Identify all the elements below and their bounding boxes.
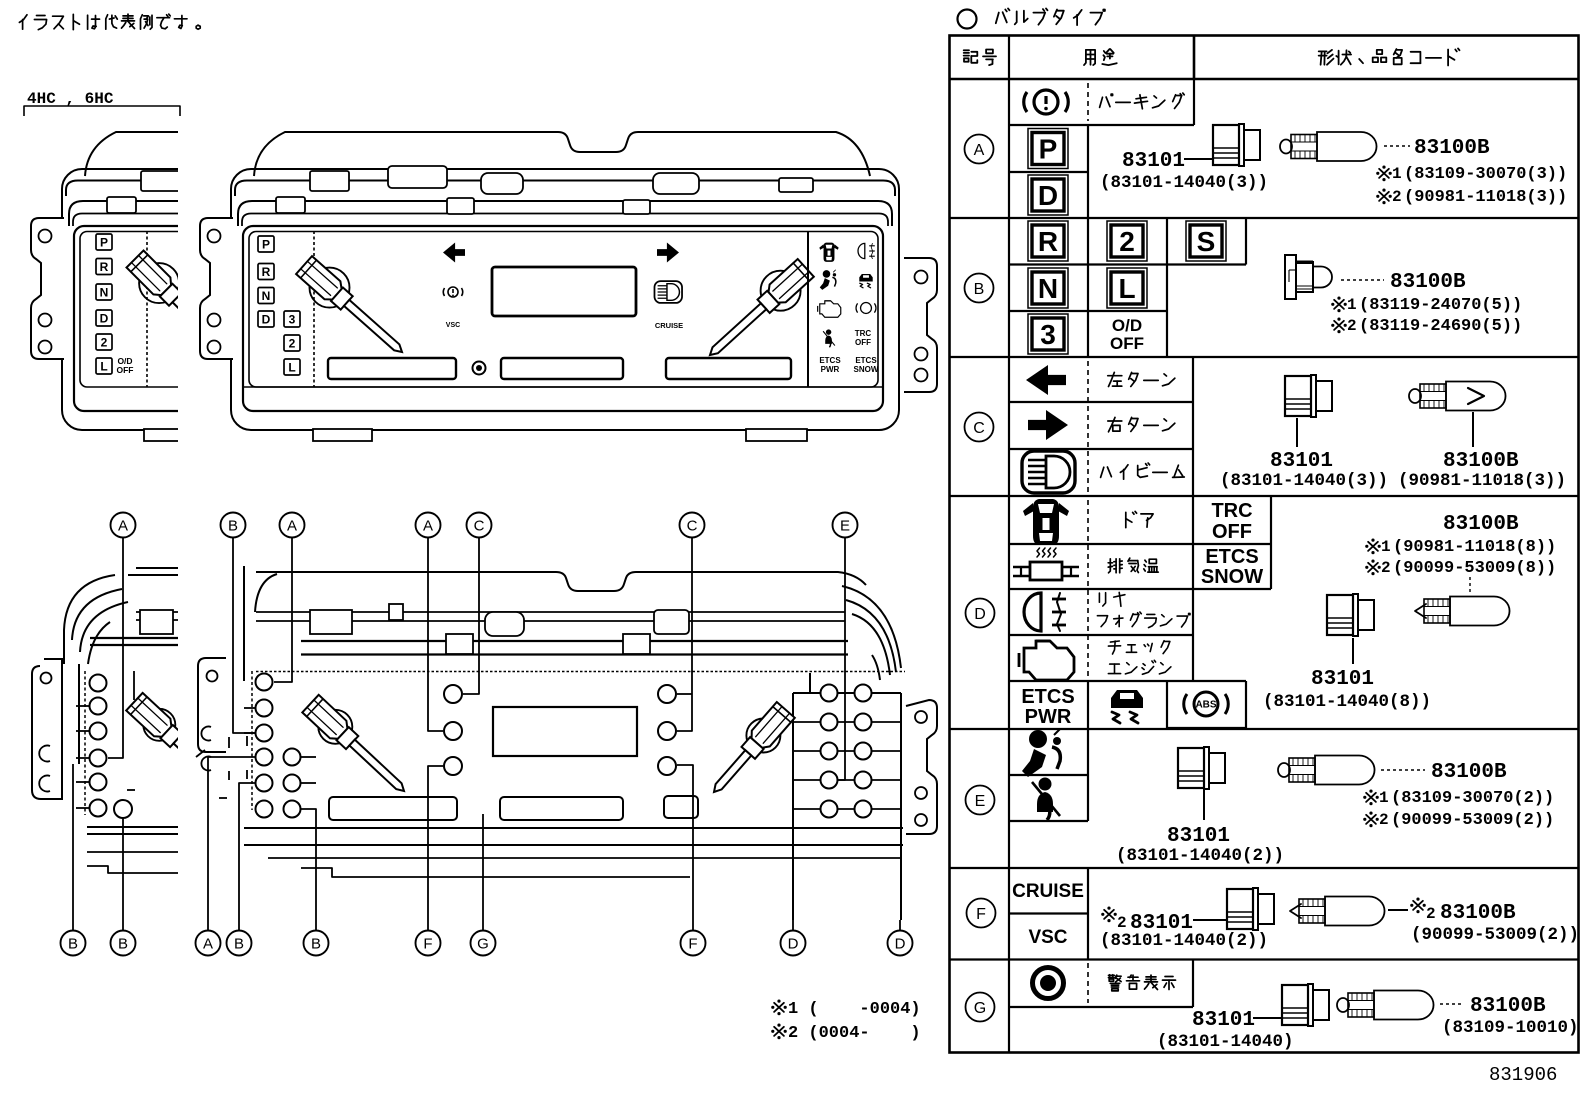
row G warning icon (1033, 968, 1064, 999)
svg-text:R: R (1038, 226, 1058, 257)
table row divider D/E (950, 728, 1579, 730)
callout circle B bottom at x=316 (304, 931, 329, 956)
svg-text:2: 2 (1379, 811, 1389, 829)
svg-text:(83101-14040(2)): (83101-14040(2)) (1116, 846, 1284, 866)
row D TRC OFF cell (1193, 543, 1271, 545)
row B 3 box (1028, 314, 1068, 354)
front cluster bottom display left (328, 358, 456, 379)
svg-text:C: C (474, 517, 485, 534)
callout leader line F bottom-1 (428, 766, 443, 931)
row G bulb (1337, 998, 1349, 1012)
svg-text:2: 2 (289, 336, 296, 350)
svg-text:S: S (1197, 226, 1216, 257)
callout circle D bottom at x=793 (781, 931, 806, 956)
row B S box (1186, 221, 1226, 261)
note: illustration disclaimer text (19, 15, 27, 23)
row D rear fog icon (1024, 593, 1041, 631)
row D bulb (1415, 604, 1426, 618)
table header column line youto/keijou (1193, 36, 1196, 80)
svg-text:R: R (100, 260, 109, 274)
rear cluster right screwdriver (746, 719, 780, 753)
rear cluster dotted shelf line (256, 671, 905, 673)
svg-text:(83101-14040(8)): (83101-14040(8)) (1263, 692, 1431, 712)
row B N box (1028, 268, 1068, 308)
svg-text:OFF: OFF (1212, 521, 1252, 543)
svg-text:G: G (477, 935, 489, 952)
front cluster housing (full view) (254, 132, 870, 176)
callout circle F bottom at x=428 (416, 931, 441, 956)
callout leader line B bottom-2 (122, 818, 124, 931)
svg-text:(83101-14040(3)): (83101-14040(3)) (1100, 173, 1268, 193)
callout circle G bottom at x=483 (471, 931, 496, 956)
table row divider A/B (950, 217, 1579, 219)
row F 83101 label (1104, 910, 1114, 919)
svg-text:L: L (288, 360, 295, 374)
row E kome1 line (1366, 793, 1376, 802)
row A parking cell borders (1009, 124, 1194, 126)
svg-text:3: 3 (289, 312, 296, 326)
row letter G circle (966, 993, 995, 1022)
row letter B circle (965, 274, 994, 303)
svg-text:ETCS: ETCS (1021, 686, 1074, 708)
callout circle B top at x=233 (221, 513, 246, 538)
row A D cell (1028, 175, 1068, 215)
svg-text:2: 2 (1117, 914, 1127, 932)
svg-text:B: B (234, 935, 244, 952)
partial rear cluster band lines (136, 611, 178, 613)
row letter F circle (967, 899, 996, 928)
callout leader line C top-left (463, 537, 479, 694)
svg-text:1: 1 (1347, 296, 1357, 314)
front cluster panel fog icon (858, 243, 875, 258)
rear cluster bottom cutout right (664, 796, 698, 818)
svg-text:CRUISE: CRUISE (655, 321, 683, 330)
svg-text:(83101-14040(2)): (83101-14040(2)) (1100, 931, 1268, 951)
callout leader line A top-right (428, 537, 443, 731)
svg-text:SNOW: SNOW (854, 365, 879, 374)
row D ETCS PWR cell (1087, 681, 1089, 728)
row B kome2 line (1334, 321, 1344, 330)
svg-text:N: N (262, 289, 271, 303)
row B L box (1107, 268, 1147, 308)
svg-text:G: G (974, 1000, 986, 1017)
table outer border (950, 36, 1579, 1053)
table row divider C/D (950, 495, 1579, 497)
table row divider E/F (950, 867, 1579, 869)
row C socket (1285, 376, 1311, 416)
svg-text:F: F (423, 935, 432, 952)
svg-text:O/D: O/D (1112, 316, 1142, 335)
partial rear cluster hidden dash marks (127, 789, 135, 791)
svg-text:B: B (311, 935, 321, 952)
rear cluster bottom cutout middle (500, 797, 623, 820)
svg-text:2: 2 (1381, 559, 1391, 577)
rear cluster panel bulb sockets (821, 685, 838, 702)
svg-text:1: 1 (1381, 538, 1391, 556)
svg-text:PWR: PWR (821, 365, 840, 374)
row C right turn arrow icon (1028, 410, 1068, 440)
svg-text:83101: 83101 (1311, 668, 1374, 691)
svg-text:CRUISE: CRUISE (1012, 881, 1084, 902)
svg-text:D: D (895, 935, 906, 952)
svg-text:VSC: VSC (1028, 927, 1067, 948)
rear cluster socket panel (793, 692, 901, 694)
row D door icon (1033, 499, 1059, 545)
front cluster telltale panel divider (807, 231, 809, 387)
svg-text:L: L (100, 359, 107, 373)
row G cell borders (1009, 1006, 1193, 1008)
row F bulb label 83100B (1413, 901, 1423, 910)
rear cluster band lines (256, 611, 845, 613)
svg-text:VSC: VSC (446, 322, 460, 329)
row C left turn text (1108, 375, 1122, 377)
front cluster panel airbag icon (820, 270, 836, 290)
row C right turn text (1108, 420, 1122, 422)
svg-text:(90099-53009(2)): (90099-53009(2)) (1411, 925, 1579, 945)
callout circle E top at x=845 (833, 513, 858, 538)
front cluster odometer display (492, 267, 636, 316)
title bulb type circle (958, 10, 977, 29)
front cluster right arrow telltale (657, 243, 679, 263)
row A kome2 line (1379, 192, 1389, 201)
callout circle B bottom at x=123 (111, 931, 136, 956)
svg-text:ETCS: ETCS (855, 356, 877, 365)
bracket under 4HC,6HC (24, 106, 180, 116)
svg-text:1: 1 (1379, 789, 1389, 807)
front cluster left screwdriver (310, 268, 350, 308)
svg-text:C: C (687, 517, 698, 534)
row D check engine icon (1024, 641, 1074, 680)
front cluster bottom display right (666, 358, 791, 379)
svg-text:83100B: 83100B (1390, 271, 1466, 294)
svg-text:OFF: OFF (1110, 334, 1144, 353)
callout circle A top at x=428 (416, 513, 441, 538)
table column line kigo (1008, 36, 1010, 1053)
svg-text:(83109-30070(3)): (83109-30070(3)) (1404, 165, 1567, 184)
callout leader line E top (838, 537, 845, 780)
svg-text:(90981-11018(3)): (90981-11018(3)) (1398, 471, 1566, 491)
row B cell grid (1009, 263, 1167, 265)
front cluster panel seatbelt icon (823, 329, 835, 347)
svg-text:3: 3 (1040, 319, 1056, 350)
svg-text:83101: 83101 (1167, 825, 1230, 848)
row D check engine text line2 (1110, 663, 1120, 665)
partial rear cluster corner arcs (64, 575, 115, 630)
front cluster panel engine icon (818, 301, 841, 317)
row C left turn arrow icon (1026, 365, 1066, 395)
row E cell borders (1009, 774, 1088, 776)
callout circle B bottom at x=73 (61, 931, 86, 956)
svg-text:83100B: 83100B (1443, 513, 1519, 536)
callout circle D bottom at x=900 (888, 931, 913, 956)
svg-text:2: 2 (1119, 226, 1135, 257)
svg-text:PWR: PWR (1025, 706, 1072, 728)
callout leader line B bottom-3 (239, 783, 255, 931)
row D cell borders (1009, 543, 1193, 545)
svg-text:A: A (203, 935, 213, 952)
row F cell borders (1009, 912, 1088, 914)
svg-text:F: F (976, 906, 986, 923)
partial rear cluster callout socket (114, 800, 132, 818)
front cluster panel door icon (819, 243, 838, 262)
rear cluster left wall (243, 566, 245, 681)
row D exhaust temp text (1109, 559, 1111, 573)
svg-text:TRC: TRC (1211, 500, 1252, 522)
svg-text:A: A (287, 517, 297, 534)
partial rear cluster bottom lines (87, 826, 178, 828)
row E seatbelt icon (1039, 778, 1052, 791)
front cluster trip knob (473, 362, 486, 375)
callout leader line B bottom-1 (72, 764, 74, 931)
header text keijou hinmei code (1319, 50, 1327, 52)
row E kome2 line (1366, 815, 1376, 824)
svg-text:OFF: OFF (117, 365, 134, 375)
row F bulb (1290, 904, 1301, 918)
svg-text:83100B: 83100B (1414, 137, 1490, 160)
svg-text:D: D (974, 606, 986, 623)
row A parking text (1100, 97, 1103, 107)
svg-text:A: A (118, 517, 128, 534)
rear cluster hidden dash marks (228, 737, 230, 748)
partial rear cluster hood lines (136, 567, 178, 569)
row A kome1 line (1379, 169, 1389, 178)
partial rear cluster mounting bracket (32, 659, 62, 799)
callout leader line D bottom-1 (792, 920, 794, 931)
svg-text:OFF: OFF (855, 338, 871, 347)
row C high beam icon (1022, 451, 1075, 493)
table header bottom line (950, 78, 1579, 81)
svg-text:B: B (974, 281, 985, 298)
row A P cell (1009, 171, 1088, 173)
svg-text:83100B: 83100B (1470, 995, 1546, 1018)
partial rear cluster socket stubs (76, 705, 89, 707)
row G warning text (1109, 974, 1115, 976)
svg-text:1: 1 (1392, 165, 1402, 183)
svg-text:83101: 83101 (1192, 1009, 1255, 1032)
rear cluster left mounting bracket (198, 658, 226, 752)
rear cluster middle bulb sockets (444, 685, 462, 703)
row D ABS icon (1194, 692, 1218, 716)
callout circle A top at x=123 (111, 513, 136, 538)
row D rear fog text line2 (1097, 616, 1107, 627)
front cluster left arrow telltale (443, 243, 465, 263)
svg-text:(83109-10010): (83109-10010) (1442, 1018, 1579, 1038)
row B kome1 line (1334, 300, 1344, 309)
svg-text:(83101-14040(3)): (83101-14040(3)) (1220, 471, 1388, 491)
front cluster brake telltale (448, 287, 458, 297)
row D socket (1327, 595, 1353, 635)
svg-text:83100B: 83100B (1443, 450, 1519, 473)
svg-text:(90099-53009(8)): (90099-53009(8)) (1393, 559, 1556, 578)
svg-text:N: N (1038, 273, 1058, 304)
svg-text:83101: 83101 (1270, 450, 1333, 473)
front cluster panel slip icon (859, 274, 872, 288)
callout leader line C top-right (677, 537, 692, 731)
header text youto (1084, 50, 1086, 65)
partial front cluster gear letter boxes (96, 234, 112, 250)
svg-text:A: A (974, 142, 985, 159)
svg-text:2: 2 (1426, 905, 1436, 923)
front cluster gear letter boxes P R N D (258, 236, 274, 252)
partial rear cluster bulb sockets (90, 675, 107, 692)
row D slip icon (1111, 690, 1143, 708)
svg-text:(90981-11018(3)): (90981-11018(3)) (1404, 188, 1567, 207)
row A bulb (1280, 140, 1292, 154)
title bulb type text (996, 13, 999, 24)
svg-text:ETCS: ETCS (819, 356, 841, 365)
row E bulb (1278, 763, 1290, 777)
callout leader line A top-left (108, 537, 123, 758)
callout circle A bottom at x=208 (196, 931, 221, 956)
callout leader line F bottom-2 (677, 765, 693, 931)
row E airbag icon (1029, 730, 1047, 748)
svg-text:2: 2 (101, 335, 108, 349)
svg-text:(83109-30070(2)): (83109-30070(2)) (1391, 789, 1554, 808)
rear cluster right mounting ear (906, 700, 937, 834)
rear cluster left screwdriver (318, 710, 352, 744)
rear cluster left corner arc (255, 574, 277, 612)
front cluster right screwdriver (761, 271, 801, 311)
svg-text:83100B: 83100B (1431, 761, 1507, 784)
svg-text:SNOW: SNOW (1201, 566, 1263, 588)
svg-text:831906: 831906 (1489, 1064, 1557, 1086)
svg-text:(90099-53009(2)): (90099-53009(2)) (1391, 811, 1554, 830)
row C cell borders (1009, 401, 1193, 403)
svg-text:B: B (118, 935, 128, 952)
table row divider F/G (950, 958, 1579, 960)
svg-text:TRC: TRC (855, 329, 872, 338)
svg-text:D: D (788, 935, 799, 952)
svg-text:B: B (68, 935, 78, 952)
footnote kome2 (774, 1027, 784, 1036)
row F socket (1227, 889, 1253, 929)
callout leader line A bottom (208, 757, 255, 931)
svg-text:(83119-24070(5)): (83119-24070(5)) (1359, 296, 1522, 315)
row D rear fog text line1 (1098, 593, 1100, 602)
row B socket with bulb (1285, 255, 1296, 299)
row letter C circle (965, 413, 994, 442)
svg-text:L: L (1118, 273, 1135, 304)
svg-text:(83119-24690(5)): (83119-24690(5)) (1359, 317, 1522, 336)
row G socket (1282, 985, 1308, 1025)
rear cluster left bulb sockets (256, 674, 273, 691)
rear cluster left socket stubs (244, 707, 255, 709)
svg-text:P: P (1039, 134, 1058, 165)
svg-text:(90981-11018(8)): (90981-11018(8)) (1393, 538, 1556, 557)
row A parking brake icon (1034, 90, 1058, 114)
svg-text:P: P (100, 235, 108, 249)
footnote kome1 (774, 1003, 784, 1012)
rear cluster bottom cutout left (329, 797, 457, 820)
front cluster bottom display middle (501, 358, 623, 379)
header text kigo (964, 49, 969, 51)
svg-text:F: F (688, 935, 697, 952)
rear cluster display cutout (493, 707, 637, 756)
svg-text:E: E (975, 793, 986, 810)
rear cluster bottom lines (244, 827, 903, 829)
rear cluster right corner arcs (842, 586, 901, 668)
row E socket (1178, 748, 1204, 788)
row A socket (1213, 125, 1239, 165)
row C high beam text (1101, 467, 1104, 477)
svg-text:D: D (1038, 180, 1058, 211)
svg-text:2: 2 (1347, 317, 1357, 335)
svg-text:R: R (262, 265, 271, 279)
table row divider B/C (950, 356, 1579, 358)
front cluster panel abs icon (856, 303, 876, 314)
callout leader line B top (233, 537, 255, 733)
svg-text:(83101-14040): (83101-14040) (1157, 1032, 1294, 1052)
svg-text:D: D (262, 312, 271, 326)
svg-text:N: N (100, 285, 109, 299)
front cluster high beam telltale (654, 281, 682, 303)
partial front cluster housing (31, 132, 768, 441)
svg-text:E: E (840, 517, 850, 534)
row B 2 box (1107, 221, 1147, 261)
svg-text:C: C (973, 420, 985, 437)
svg-text:P: P (262, 237, 270, 251)
row letter A circle (965, 135, 994, 164)
callout circle C top at x=692 (680, 513, 705, 538)
callout leader line D bottom-2 (899, 920, 901, 931)
row letter E circle (966, 786, 995, 815)
row D check engine text line1 (1110, 641, 1119, 642)
callout circle F bottom at x=693 (681, 931, 706, 956)
row letter D circle (966, 599, 995, 628)
row D exhaust icon (1030, 562, 1062, 580)
rear cluster hood line with notch (256, 572, 866, 591)
callout leader line B bottom-4 (301, 809, 316, 931)
row D door text (1125, 512, 1127, 527)
callout circle B bottom at x=239 (227, 931, 252, 956)
row C bulb (1409, 389, 1421, 403)
callout circle A top at x=292 (280, 513, 305, 538)
svg-text:ETCS: ETCS (1205, 546, 1258, 568)
front cluster inner divider line (313, 231, 315, 387)
svg-text:D: D (100, 311, 109, 325)
rear cluster band tabs (310, 610, 352, 634)
partial rear cluster wall lines (63, 630, 65, 664)
svg-text:83101: 83101 (1122, 150, 1185, 173)
svg-text:83100B: 83100B (1440, 902, 1516, 925)
callout leader line A top-mid (274, 537, 292, 682)
row D kome2 line (1368, 563, 1378, 572)
svg-text:ABS: ABS (1195, 700, 1216, 711)
svg-text:A: A (423, 517, 433, 534)
svg-text:B: B (228, 517, 238, 534)
row D kome1 line (1368, 542, 1378, 551)
callout leader line G bottom (482, 814, 484, 931)
row B R box (1028, 221, 1068, 261)
svg-text:2 (0004- ): 2 (0004- ) (788, 1024, 921, 1043)
front cluster gear letter boxes 3 2 L (284, 311, 300, 327)
svg-text:1 ( -0004): 1 ( -0004) (788, 1000, 921, 1019)
callout circle C top at x=479 (467, 513, 492, 538)
svg-text:2: 2 (1392, 188, 1402, 206)
